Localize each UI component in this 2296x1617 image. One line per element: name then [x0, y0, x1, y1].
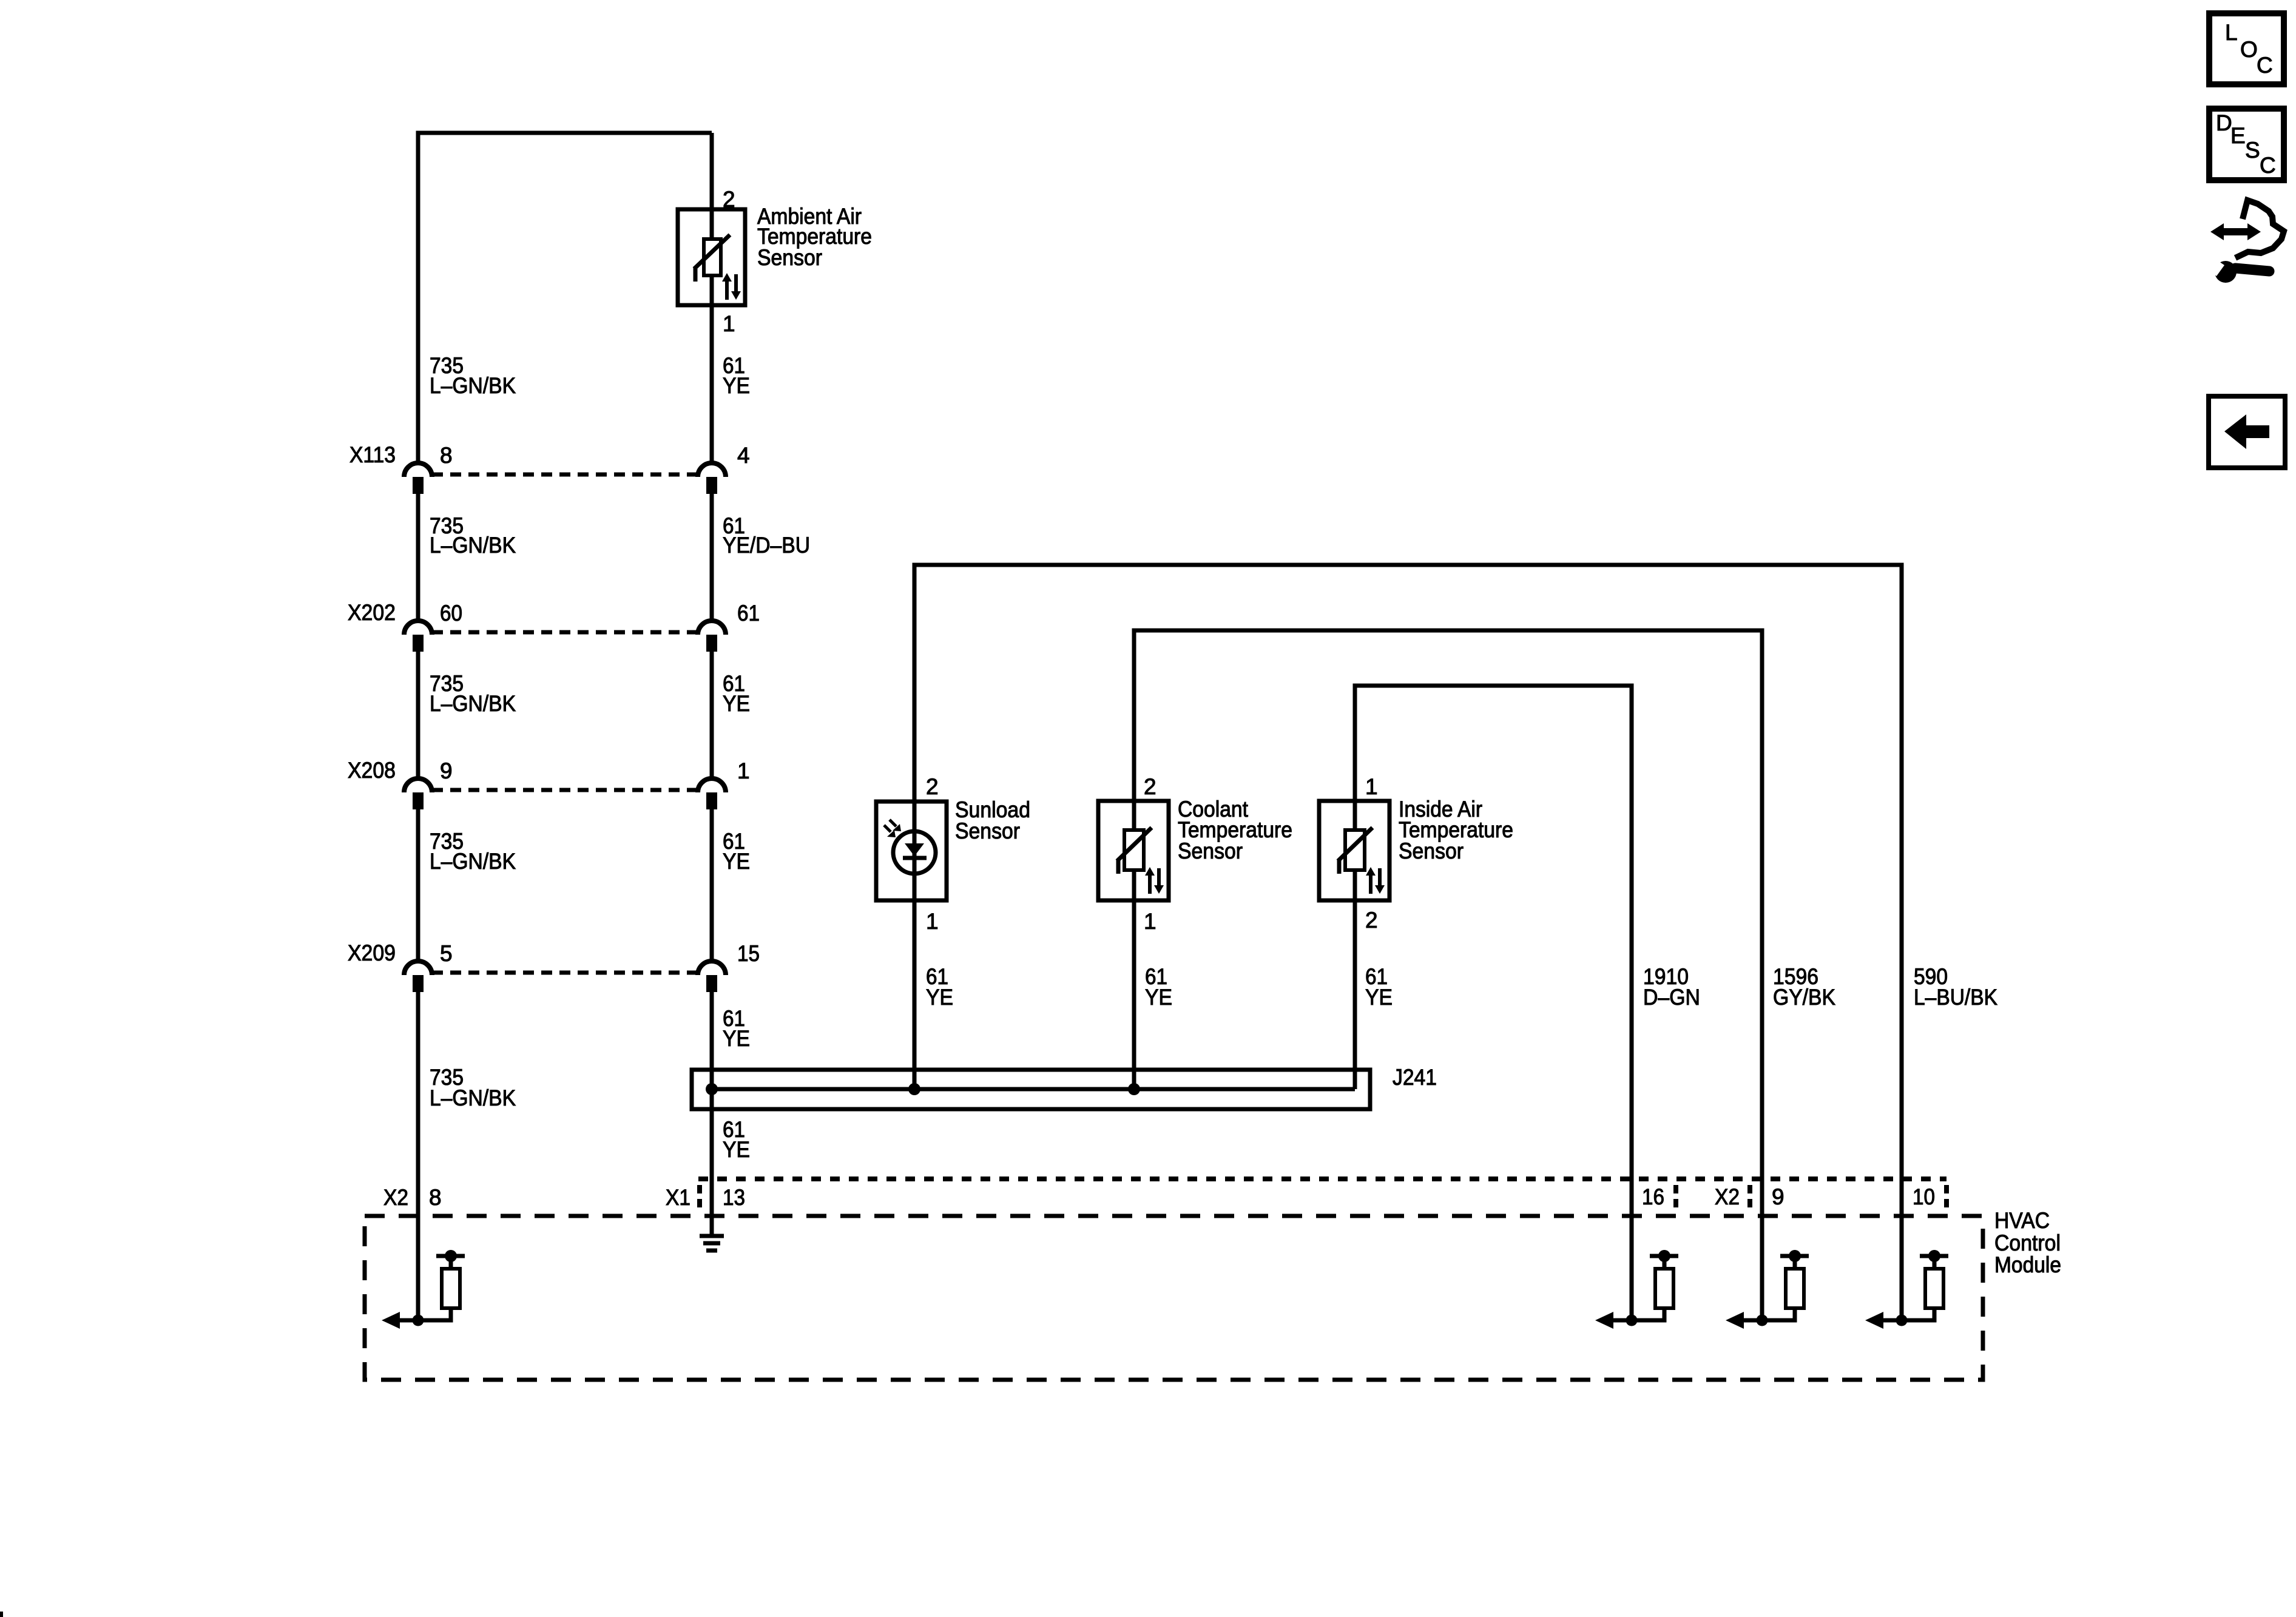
- temperature arrows (ambient): [722, 273, 741, 300]
- label wire 61 seg3: [723, 671, 750, 716]
- svg-text:1: 1: [723, 311, 735, 336]
- svg-text:8: 8: [429, 1185, 442, 1210]
- pin 60 label X202: [440, 601, 462, 626]
- thermistor symbol (inside air): [1338, 828, 1373, 874]
- svg-text:YE: YE: [1365, 985, 1393, 1010]
- svg-text:L–GN/BK: L–GN/BK: [430, 1085, 516, 1110]
- junction dot (61 YE at J241): [706, 1083, 718, 1095]
- pin 2 label (sunload): [926, 774, 939, 799]
- svg-text:2: 2: [723, 187, 735, 212]
- svg-text:X1: X1: [666, 1185, 690, 1210]
- icon: connector repair (double arrow + wrench): [2203, 200, 2284, 283]
- sunload sensor box: [876, 802, 947, 900]
- inside air temperature sensor box: [1319, 801, 1389, 900]
- svg-text:1: 1: [926, 909, 939, 934]
- pin 1 label X208: [737, 758, 750, 783]
- temperature arrows (coolant): [1145, 867, 1164, 894]
- svg-text:YE: YE: [723, 849, 750, 874]
- label wire 1596 GY/BK: [1773, 964, 1835, 1010]
- svg-text:X209: X209: [348, 940, 396, 965]
- svg-text:X2: X2: [1715, 1184, 1740, 1209]
- label wire 61 YE (coolant): [1145, 964, 1172, 1010]
- icon: LOC box: [2209, 13, 2284, 84]
- temperature arrows (inside air): [1366, 867, 1385, 894]
- label wire 735 L-GN/BK seg1: [430, 353, 516, 398]
- label wire 735 L-GN/BK seg5: [430, 1065, 516, 1110]
- label wire 590 L-BU/BK: [1914, 964, 1997, 1010]
- svg-text:5: 5: [440, 941, 453, 966]
- svg-text:YE: YE: [723, 691, 750, 716]
- label: Coolant Temperature Sensor: [1178, 797, 1292, 863]
- svg-text:8: 8: [440, 443, 453, 468]
- pin 8 label X113: [440, 443, 453, 468]
- svg-text:D–GN: D–GN: [1643, 985, 1700, 1010]
- label wire 61 seg2: [723, 513, 810, 558]
- connector X209 inline connector: [404, 961, 726, 992]
- label wire 61 seg1: [723, 353, 750, 398]
- thermistor symbol (ambient): [694, 235, 730, 282]
- svg-text:4: 4: [737, 443, 750, 468]
- thermistor symbol (coolant): [1117, 828, 1152, 874]
- label J241: [1393, 1065, 1437, 1090]
- svg-text:X208: X208: [348, 758, 396, 783]
- pin 1 label (sunload): [926, 909, 939, 934]
- label: Ambient Air Temperature Sensor: [757, 204, 872, 270]
- label: Inside Air Temperature Sensor: [1399, 797, 1513, 863]
- junction dot (coolant at J241): [1128, 1083, 1140, 1095]
- label wire 735 L-GN/BK seg3: [430, 671, 516, 716]
- label X202: [348, 600, 396, 625]
- svg-text:X2: X2: [383, 1185, 408, 1210]
- connector strip stub right of pin 10: [1944, 1185, 1949, 1209]
- svg-text:YE: YE: [723, 1137, 750, 1162]
- svg-text:D: D: [2216, 110, 2232, 135]
- wire 61 YE X113 to X202: [710, 494, 714, 620]
- svg-text:J241: J241: [1393, 1065, 1437, 1090]
- svg-text:X113: X113: [349, 442, 396, 467]
- page corner mark: [0, 1612, 3, 1617]
- pin 2 label (ambient): [723, 187, 735, 212]
- wire 735 L-GN/BK X202 to X208: [416, 652, 420, 778]
- connector strip stub left of pin 9: [1747, 1185, 1752, 1209]
- pin 8 label (module): [429, 1185, 442, 1210]
- label wire 61 YE (inside air): [1365, 964, 1393, 1010]
- label wire 61 YE above J241: [723, 1006, 750, 1051]
- svg-text:YE: YE: [1145, 985, 1172, 1010]
- connector X113 inline connector: [404, 463, 726, 494]
- junction dot (sunload at J241): [908, 1083, 920, 1095]
- pin 9 label X208: [440, 758, 453, 783]
- svg-text:O: O: [2240, 37, 2258, 62]
- label X2 (left): [383, 1185, 408, 1210]
- svg-text:YE: YE: [723, 1026, 750, 1051]
- svg-text:E: E: [2230, 123, 2246, 148]
- pin 61 label X202: [737, 601, 760, 626]
- wire: sunload sensor to pin 10 (590 L-BU/BK): [914, 565, 1902, 1320]
- svg-text:YE: YE: [723, 373, 750, 398]
- pin 16 label (module): [1642, 1184, 1664, 1209]
- light arrows (sunload): [884, 820, 901, 837]
- connector strip stub right of pin 16: [1673, 1185, 1678, 1209]
- connector strip dotted line X1/X2: [698, 1176, 1947, 1181]
- label wire 61 YE (sunload): [926, 964, 953, 1010]
- svg-text:60: 60: [440, 601, 462, 626]
- svg-text:C: C: [2260, 153, 2276, 178]
- svg-text:15: 15: [737, 941, 760, 966]
- svg-text:S: S: [2245, 138, 2260, 163]
- pin 10 label (module): [1913, 1184, 1935, 1209]
- icon: DESC box: [2209, 109, 2284, 180]
- svg-text:Sensor: Sensor: [1399, 839, 1464, 863]
- svg-text:HVAC: HVAC: [1994, 1208, 2050, 1233]
- svg-text:L–BU/BK: L–BU/BK: [1914, 985, 1997, 1010]
- wire: 61 YE from loop through ambient sensor down to X113: [710, 133, 714, 462]
- pin 13 label (module): [723, 1185, 745, 1210]
- svg-text:2: 2: [926, 774, 939, 799]
- svg-text:GY/BK: GY/BK: [1773, 985, 1835, 1010]
- svg-text:Sensor: Sensor: [757, 245, 822, 270]
- resistor + signal arrow (pin 16): [1595, 1250, 1678, 1329]
- wire: 735 L-GN/BK top loop: [418, 133, 712, 462]
- label X208: [348, 758, 396, 783]
- svg-text:16: 16: [1642, 1184, 1664, 1209]
- pin 5 label X209: [440, 941, 453, 966]
- svg-text:L–GN/BK: L–GN/BK: [430, 691, 516, 716]
- svg-text:L–GN/BK: L–GN/BK: [430, 373, 516, 398]
- label wire 735 L-GN/BK seg2: [430, 513, 516, 558]
- svg-text:L: L: [2225, 20, 2238, 45]
- svg-text:13: 13: [723, 1185, 745, 1210]
- wire 61 YE X209 through J241 to ground pin 13: [710, 992, 714, 1235]
- svg-text:9: 9: [1772, 1184, 1784, 1209]
- pin 2 label (coolant): [1144, 774, 1156, 799]
- svg-text:61: 61: [737, 601, 760, 626]
- svg-text:L–GN/BK: L–GN/BK: [430, 533, 516, 558]
- wire 61 YE X208 to X209: [710, 809, 714, 960]
- icon: back arrow box: [2209, 396, 2285, 468]
- photodiode symbol (sunload): [893, 831, 936, 874]
- wire 61 YE X202 to X208: [710, 652, 714, 778]
- label X209: [348, 940, 396, 965]
- label X1: [666, 1185, 690, 1210]
- label wire 61 YE below J241: [723, 1117, 750, 1162]
- svg-text:Sensor: Sensor: [1178, 839, 1243, 863]
- connector strip stub at X1 start: [697, 1185, 702, 1209]
- label X113: [349, 442, 396, 467]
- wire 735 L-GN/BK X113 to X202: [416, 494, 420, 620]
- pin 15 label X209: [737, 941, 760, 966]
- label X2 (right): [1715, 1184, 1740, 1209]
- splice pack J241: [692, 1070, 1370, 1109]
- ambient air temperature sensor box: [678, 209, 745, 305]
- wire: coolant sensor to pin 9 (1596 GY/BK): [1134, 630, 1762, 1320]
- label: HVAC Control Module: [1994, 1208, 2061, 1277]
- svg-text:Module: Module: [1994, 1252, 2061, 1277]
- svg-text:1: 1: [1365, 774, 1378, 799]
- resistor + signal arrow (pin 9): [1726, 1250, 1809, 1329]
- pin 1 label (ambient): [723, 311, 735, 336]
- svg-text:YE/D–BU: YE/D–BU: [723, 533, 810, 558]
- svg-text:YE: YE: [926, 985, 953, 1010]
- pin 1 label (inside air): [1365, 774, 1378, 799]
- pin 9 label (module): [1772, 1184, 1784, 1209]
- svg-text:X202: X202: [348, 600, 396, 625]
- svg-text:1: 1: [1144, 909, 1156, 934]
- ground symbol (pin 13): [700, 1236, 724, 1251]
- HVAC control module dashed outline: [365, 1216, 1983, 1380]
- svg-text:9: 9: [440, 758, 453, 783]
- pin 1 label (coolant): [1144, 909, 1156, 934]
- resistor + signal arrow (pin 10): [1865, 1250, 1948, 1329]
- wire 735 L-GN/BK X208 to X209: [416, 809, 420, 960]
- label wire 61 seg4: [723, 829, 750, 874]
- resistor + signal arrow (pin 8): [382, 1250, 465, 1329]
- coolant temperature sensor box: [1098, 801, 1169, 900]
- label: Sunload Sensor: [955, 797, 1030, 843]
- svg-text:Control: Control: [1994, 1230, 2061, 1255]
- wire 735 L-GN/BK X209 to HVAC module: [416, 992, 420, 1320]
- label wire 735 L-GN/BK seg4: [430, 829, 516, 874]
- connector X208 inline connector: [404, 778, 726, 809]
- wire: inside air sensor to pin 16 (1910 D-GN): [1355, 686, 1632, 1320]
- svg-text:C: C: [2257, 53, 2273, 78]
- label wire 1910 D-GN: [1643, 964, 1700, 1010]
- pin 2 label (inside air): [1365, 908, 1378, 933]
- svg-text:L–GN/BK: L–GN/BK: [430, 849, 516, 874]
- connector X202 inline connector: [404, 621, 726, 652]
- svg-text:10: 10: [1913, 1184, 1935, 1209]
- svg-text:1: 1: [737, 758, 750, 783]
- svg-text:Sensor: Sensor: [955, 819, 1020, 843]
- pin 4 label X113: [737, 443, 750, 468]
- svg-text:2: 2: [1365, 908, 1378, 933]
- svg-text:2: 2: [1144, 774, 1156, 799]
